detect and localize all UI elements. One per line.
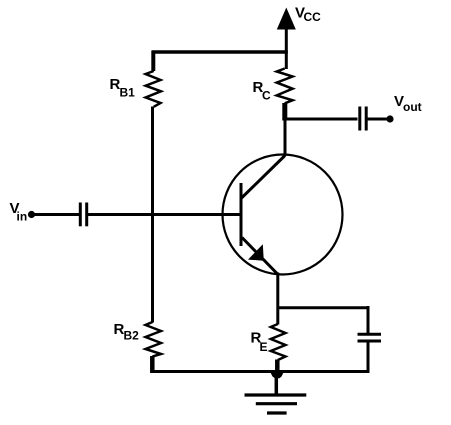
wire bypass cap vertical upper [367, 306, 370, 334]
wire collector lower [284, 119, 287, 156]
svg-text:C: C [262, 89, 271, 103]
svg-text:B1: B1 [120, 86, 136, 100]
ground bar 2 [256, 402, 297, 405]
wire Vin to input cap [32, 213, 80, 216]
wire VCC stem [285, 26, 288, 69]
capacitor output coupling left plate [358, 107, 361, 131]
svg-text:in: in [17, 210, 28, 224]
wire divider vertical lower (RB2 to bottom rail) [150, 356, 155, 373]
VCC supply arrow [278, 10, 294, 29]
node Vout terminal dot [386, 115, 393, 122]
ground bar 1 [245, 393, 307, 396]
wire ground stem [275, 373, 279, 395]
capacitor input coupling right plate [85, 203, 88, 227]
transistor Q1 collector lead [241, 156, 285, 199]
wire divider vertical middle (RB1 to RB2) [151, 107, 154, 323]
wire collector vertical [282, 103, 287, 121]
svg-text:out: out [403, 100, 422, 114]
capacitor emitter bypass bottom plate [358, 340, 382, 343]
svg-text:E: E [260, 340, 268, 354]
wire emitter vertical [276, 273, 279, 325]
capacitor input coupling left plate [79, 203, 82, 227]
wire divider vertical upper (top rail to RB1) [151, 51, 155, 71]
transistor Q1 emitter arrow [248, 244, 264, 261]
resistor RE [271, 324, 286, 360]
wire RE to bottom rail [275, 360, 280, 373]
capacitor emitter bypass top plate [358, 333, 382, 336]
svg-text:B2: B2 [124, 329, 140, 343]
resistor RB1 [146, 71, 161, 107]
resistor RC [277, 69, 293, 104]
wire bottom rail [151, 370, 368, 373]
transistor Q1 circle [223, 155, 343, 275]
wire top rail from RB1 to VCC branch [152, 50, 288, 54]
ground bar 3 [267, 411, 287, 414]
transistor Q1 emitter lead [242, 238, 278, 275]
resistor RB2 [146, 322, 162, 357]
transistor Q1 base bar [240, 183, 243, 246]
wire output branch [285, 118, 358, 121]
node Vin terminal dot [28, 211, 35, 218]
wire to output terminal [368, 118, 390, 121]
wire bypass cap vertical lower [367, 342, 370, 373]
svg-text:CC: CC [304, 10, 322, 24]
node emitter-ground junction dot [271, 373, 284, 379]
wire emitter bypass branch [278, 306, 368, 309]
capacitor output coupling right plate [365, 107, 368, 131]
wire input cap to base [88, 213, 241, 216]
